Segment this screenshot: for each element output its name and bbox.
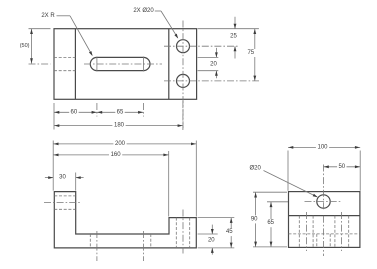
svg-text:65: 65	[117, 109, 124, 115]
svg-text:20: 20	[210, 61, 217, 67]
svg-text:180: 180	[114, 123, 125, 129]
svg-text:45: 45	[226, 229, 233, 235]
svg-text:65: 65	[267, 220, 274, 226]
svg-text:Ø20: Ø20	[250, 166, 262, 172]
svg-text:50: 50	[338, 164, 345, 170]
svg-text:60: 60	[71, 109, 78, 115]
svg-text:2X Ø20: 2X Ø20	[133, 8, 154, 14]
svg-text:160: 160	[111, 152, 122, 158]
svg-text:200: 200	[115, 141, 126, 147]
svg-text:30: 30	[59, 175, 66, 181]
svg-text:100: 100	[317, 144, 328, 150]
svg-text:20: 20	[208, 237, 215, 243]
svg-text:2X R: 2X R	[41, 13, 55, 19]
svg-text:75: 75	[247, 50, 254, 56]
svg-text:25: 25	[230, 34, 237, 40]
svg-text:(50): (50)	[20, 43, 30, 49]
svg-text:90: 90	[251, 216, 258, 222]
